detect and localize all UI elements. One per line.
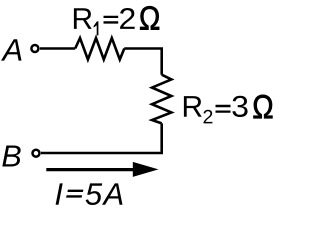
node A (1, 39, 22, 60)
node B (2, 146, 20, 167)
resistor R1 (75, 38, 124, 60)
label R1=2ohm (74, 8, 135, 35)
wire (124, 49, 161, 75)
label I=5A (56, 183, 123, 205)
wire (40, 47, 75, 50)
wire (41, 123, 162, 153)
terminal A (31, 45, 38, 52)
resistor R2 (152, 75, 171, 124)
terminal B (33, 150, 40, 157)
label R2=3ohm (184, 96, 248, 124)
current arrow I (46, 168, 136, 171)
